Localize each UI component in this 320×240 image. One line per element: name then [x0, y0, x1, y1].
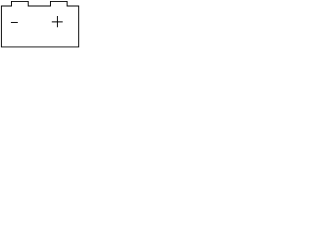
battery BT1 body outline with terminal bumps — [1, 1, 78, 47]
negative terminal minus sign — [11, 21, 18, 23]
positive terminal plus sign — [52, 16, 63, 27]
